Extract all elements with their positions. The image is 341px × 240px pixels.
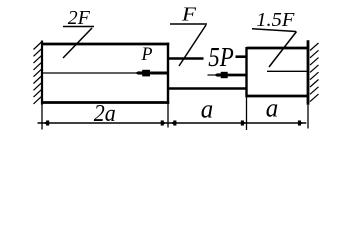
1.5F leader slash	[269, 32, 297, 68]
extension line at segment 1/2 joint	[167, 104, 169, 128]
svg-text:2F: 2F	[68, 7, 91, 29]
F underline	[170, 23, 207, 25]
bar segment 1 top edge	[42, 43, 169, 46]
2F leader slash	[63, 28, 92, 58]
bar segment 2 top edge (left part)	[168, 57, 204, 60]
segment 3 centerline	[267, 70, 307, 72]
svg-text:a: a	[201, 95, 214, 124]
dimension line	[38, 122, 307, 124]
right extension line (a right)	[307, 105, 309, 129]
bar segment 2 top edge (right part)	[236, 55, 247, 58]
svg-text:2a: 2a	[94, 101, 116, 127]
svg-text:a: a	[266, 94, 279, 123]
dim arrow right (mid a)	[242, 121, 247, 124]
svg-text:F: F	[181, 4, 197, 26]
bar segment 3 bottom edge	[247, 95, 309, 98]
force arrow P shaft	[149, 72, 168, 75]
left extension line (2a left)	[41, 105, 43, 130]
bar segment 1 right edge	[167, 43, 169, 104]
svg-text:P: P	[141, 44, 153, 65]
dim arrow left (2a)	[43, 121, 48, 124]
force arrow 5P head	[214, 73, 218, 76]
dim arrow left (mid a)	[170, 121, 175, 124]
dim arrow right (2a)	[162, 121, 167, 124]
force arrow 5P shaft	[227, 74, 247, 77]
bar segment 1 bottom edge	[42, 101, 169, 104]
svg-text:1.5F: 1.5F	[256, 9, 295, 31]
bar segment 3 top edge	[247, 47, 309, 50]
force arrow P head	[135, 71, 139, 74]
extension line at segment 2/3 joint	[246, 97, 248, 130]
1.5F underline	[252, 29, 296, 32]
right wall line	[307, 40, 310, 105]
bar segment 2 bottom edge	[168, 87, 247, 90]
svg-text:5P: 5P	[208, 43, 233, 72]
right wall hatching	[310, 43, 319, 102]
left wall hatching	[34, 42, 42, 104]
left wall line	[41, 41, 43, 105]
segment 1 centerline	[43, 72, 136, 74]
2F underline	[63, 26, 94, 28]
dim arrow right end (a)	[299, 121, 304, 124]
F leader slash	[179, 25, 206, 66]
force arrow 5P lead line	[208, 74, 215, 76]
bar segment 3 left edge	[245, 47, 247, 97]
